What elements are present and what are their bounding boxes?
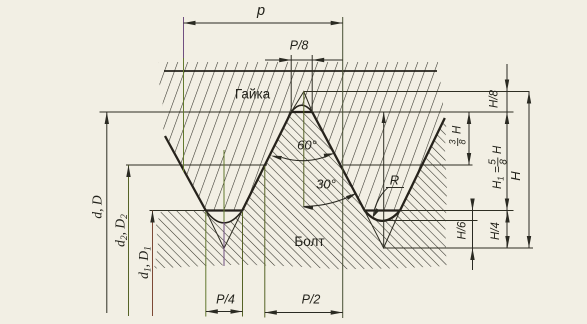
svg-text:d, D: d, D	[90, 195, 105, 219]
right root flat	[365, 209, 401, 211]
label H	[508, 171, 523, 181]
right root centerline with arrow to d line	[383, 112, 385, 248]
svg-text:60°: 60°	[297, 138, 317, 153]
svg-text:Гайка: Гайка	[235, 87, 271, 102]
svg-text:p: p	[256, 3, 265, 19]
pitch line d2,D2 left segment	[126, 164, 267, 166]
theoretical sharp V of left root	[206, 211, 243, 249]
svg-text:P/2: P/2	[302, 293, 321, 307]
dimension line P/2	[265, 312, 343, 314]
3/8 H dimension line	[468, 112, 470, 165]
thread profile contour (thick)	[165, 112, 445, 211]
dimension line p	[184, 22, 343, 24]
svg-text:P/8: P/8	[290, 39, 309, 53]
left groove centerline	[223, 150, 225, 222]
d1,D1 line left segment	[150, 210, 206, 212]
dimension P/8 extension lines	[290, 55, 292, 112]
rounded root bottom line (H/6 level)	[381, 220, 478, 222]
svg-text:3: 3	[448, 139, 458, 144]
H/8 + H1 + H/4 dimension line	[506, 64, 508, 248]
svg-text:Н/6: Н/6	[457, 221, 469, 240]
d2,D2 diameter arrow line	[128, 165, 130, 316]
label H1 = 5/8 H	[488, 145, 510, 189]
dimension p extension line left	[183, 17, 185, 58]
left root rounding arc	[206, 211, 243, 223]
30 degree angle arc with arrows	[304, 194, 356, 207]
nut hatched section (Гайка)	[158, 62, 445, 211]
svg-text:30°: 30°	[316, 177, 336, 192]
label 3/8 H	[448, 125, 468, 146]
H/6 auxiliary dimension line	[472, 199, 474, 270]
svg-text:Болт: Болт	[294, 234, 324, 249]
svg-text:5: 5	[488, 159, 499, 165]
d1,D1 diameter arrow line	[152, 211, 154, 317]
svg-text:8: 8	[458, 139, 468, 144]
svg-text:P/4: P/4	[216, 293, 235, 307]
crest flat of bolt (d level)	[291, 111, 312, 113]
label d1,D1	[136, 246, 154, 279]
P/4 extension lines	[205, 212, 207, 317]
label H/4	[490, 222, 502, 240]
label H/8	[489, 89, 501, 108]
label H/6	[457, 221, 469, 240]
theoretical sharp V of right root	[365, 211, 401, 249]
pitch line d2,D2 right segment	[343, 164, 473, 166]
svg-text:Н: Н	[492, 145, 504, 154]
60 degree angle arc with arrows	[282, 156, 329, 161]
tooth centerline through top apex	[303, 92, 305, 207]
nut top boundary line	[164, 70, 437, 72]
label d,D	[90, 195, 105, 219]
top apex line (top of H)	[304, 91, 530, 93]
svg-text:Н/8: Н/8	[489, 89, 501, 108]
d1,D1 line right segment	[400, 210, 514, 212]
P/2 left extension line	[264, 166, 266, 318]
svg-text:Н/4: Н/4	[490, 222, 502, 240]
svg-text:d1, D1: d1, D1	[136, 246, 154, 279]
d,D major diameter line	[100, 111, 514, 113]
svg-text:Н: Н	[452, 125, 464, 134]
theoretical sharp crest V to top apex	[291, 92, 312, 113]
svg-text:8: 8	[499, 159, 510, 165]
dimension line P/8 (outside arrows)	[265, 59, 343, 61]
label d2,D2	[113, 214, 131, 247]
bottom apex line (bottom of H)	[384, 247, 533, 249]
dimension line P/4	[206, 311, 243, 313]
H overall dimension line	[528, 92, 530, 249]
R leader line and shelf	[386, 187, 404, 189]
dimension p extension line right (runs to bottom P/2)	[342, 17, 344, 318]
d,D diameter arrow line	[106, 112, 108, 313]
crest rounding arc	[291, 105, 312, 112]
bolt hatched section (Болт)	[154, 112, 447, 269]
right root rounding arc (radius R)	[365, 211, 401, 221]
svg-text:R: R	[390, 173, 399, 188]
svg-text:Н: Н	[508, 171, 523, 181]
